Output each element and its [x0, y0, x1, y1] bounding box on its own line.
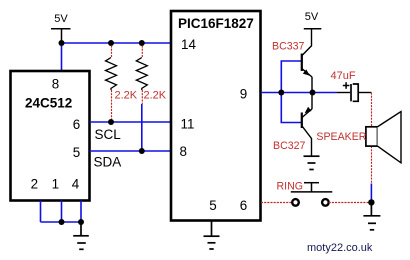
wire top rail 5V — [62, 42, 171, 44]
wire down to 24C512 pin 8 — [61, 43, 63, 71]
svg-text:SDA: SDA — [94, 155, 122, 170]
wire 24C512 pin 2 to ground — [40, 201, 42, 223]
transistor Q2 BC327 — [302, 93, 312, 157]
svg-text:PIC16F1827: PIC16F1827 — [178, 16, 254, 31]
svg-text:6: 6 — [240, 198, 247, 213]
node junction R2 on SDA — [139, 148, 145, 154]
svg-text:5V: 5V — [54, 13, 68, 25]
node junction at 5V rail — [59, 40, 65, 46]
svg-text:8: 8 — [180, 144, 187, 159]
transistor Q1 emitter arrow — [303, 69, 310, 75]
capacitor C1 plates — [351, 84, 358, 101]
wire pin 9 to transistor bases — [261, 92, 337, 94]
capacitor C1 leads — [337, 92, 371, 94]
wire SDA net — [90, 150, 171, 152]
speaker LS1 body — [366, 127, 378, 146]
switch SW1 contact left — [292, 199, 299, 206]
wire ground bus under 24C512 — [41, 221, 82, 223]
wire SCL net — [90, 121, 171, 123]
svg-text:2.2K: 2.2K — [115, 89, 138, 101]
switch SW1 contact right — [322, 199, 329, 206]
svg-text:6: 6 — [73, 117, 80, 132]
svg-text:24C512: 24C512 — [25, 96, 72, 111]
ground right — [363, 202, 380, 229]
resistor R2 leads — [141, 46, 143, 105]
transistor Q1 BC337 — [302, 29, 312, 93]
ground under PIC16F1827 — [204, 222, 220, 250]
wire 24C512 pin 1 to ground — [61, 201, 63, 223]
node junction R2 top — [139, 40, 145, 46]
wire down to BC327 base — [281, 93, 301, 123]
resistor R1 leads — [111, 46, 113, 120]
svg-text:8: 8 — [52, 77, 59, 92]
capacitor C1 plus sign — [343, 82, 350, 89]
wire speaker to junction — [370, 184, 372, 203]
svg-text:5V: 5V — [305, 11, 319, 23]
resistor R2 zigzag — [136, 58, 147, 91]
node junction pin4 gnd — [78, 219, 84, 225]
svg-text:2: 2 — [31, 177, 38, 192]
svg-text:1: 1 — [52, 177, 59, 192]
svg-text:4: 4 — [72, 177, 80, 192]
svg-text:47uF: 47uF — [331, 70, 356, 82]
node junction bases — [278, 90, 284, 96]
wire R2 to SDA — [141, 104, 143, 151]
ground under 24C512 — [73, 222, 89, 249]
node junction R1 on SCL — [108, 119, 114, 125]
svg-text:5: 5 — [209, 198, 216, 213]
ground BC327 collector — [304, 156, 320, 169]
svg-text:BC337: BC337 — [272, 41, 304, 53]
svg-text:11: 11 — [181, 117, 195, 132]
wire pin 6 to ring switch — [261, 202, 292, 204]
node junction emitters — [310, 90, 316, 96]
node junction R1 top — [108, 40, 114, 46]
resistor R1 zigzag — [106, 58, 117, 91]
IC U2 PIC16F1827 body — [171, 11, 261, 221]
svg-text:BC327: BC327 — [273, 140, 305, 152]
svg-text:SCL: SCL — [95, 127, 122, 142]
svg-text:2.2K: 2.2K — [144, 89, 167, 101]
svg-text:RING: RING — [277, 181, 303, 193]
svg-text:9: 9 — [240, 87, 247, 102]
wire capacitor to speaker (red lead) — [371, 93, 373, 184]
switch SW1 actuator — [291, 183, 333, 192]
svg-text:moty22.co.uk: moty22.co.uk — [307, 242, 373, 254]
speaker LS1 horn — [378, 112, 402, 163]
svg-text:SPEAKER: SPEAKER — [316, 131, 366, 143]
wire up to BC337 base — [281, 61, 301, 93]
IC U1 24C512 body — [11, 71, 90, 201]
svg-text:5: 5 — [73, 145, 80, 160]
wire switch to junction — [329, 202, 372, 204]
node junction pin1 gnd — [59, 219, 65, 225]
power 5V left symbol — [51, 29, 71, 43]
svg-text:14: 14 — [181, 37, 196, 52]
node junction speaker/switch/ground — [368, 199, 374, 205]
wire 24C512 pin 4 to ground — [80, 201, 82, 223]
power 5V right symbol — [304, 28, 322, 30]
transistor Q2 emitter arrow — [305, 107, 312, 114]
